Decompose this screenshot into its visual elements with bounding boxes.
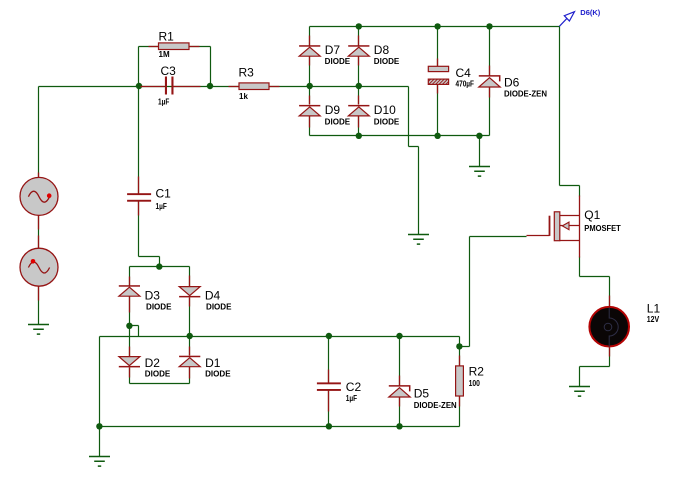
svg-text:DIODE: DIODE [374,57,400,66]
svg-text:D10: D10 [374,103,396,117]
svg-text:R1: R1 [159,30,175,44]
svg-text:DIODE-ZEN: DIODE-ZEN [414,401,457,410]
svg-text:1µF: 1µF [156,202,167,211]
svg-text:100: 100 [469,379,481,388]
svg-text:C2: C2 [346,380,362,394]
svg-text:DIODE: DIODE [146,303,172,312]
svg-text:D7: D7 [325,43,341,57]
svg-text:DIODE-ZEN: DIODE-ZEN [504,90,547,99]
svg-text:Q1: Q1 [584,208,600,222]
svg-text:1M: 1M [159,50,170,59]
svg-text:D6(K): D6(K) [580,8,601,17]
svg-text:D4: D4 [205,289,221,303]
svg-text:L1: L1 [647,302,661,316]
svg-text:D1: D1 [205,356,221,370]
svg-text:1µF: 1µF [158,98,169,107]
svg-text:DIODE: DIODE [325,117,351,126]
svg-text:C1: C1 [156,187,172,201]
svg-text:D2: D2 [145,356,161,370]
svg-text:D8: D8 [374,43,390,57]
svg-text:DIODE: DIODE [206,303,232,312]
svg-text:1µF: 1µF [346,394,357,403]
svg-text:DIODE: DIODE [145,370,171,379]
svg-text:C4: C4 [456,66,472,80]
svg-text:DIODE: DIODE [205,370,231,379]
svg-text:D5: D5 [414,386,430,400]
svg-text:470µF: 470µF [456,80,475,89]
svg-text:DIODE: DIODE [374,117,400,126]
svg-text:1k: 1k [239,92,248,101]
svg-text:C3: C3 [161,64,177,78]
svg-text:PMOSFET: PMOSFET [584,224,621,233]
svg-text:D6: D6 [504,76,520,90]
svg-text:DIODE: DIODE [325,57,351,66]
svg-text:D3: D3 [145,289,161,303]
svg-text:D9: D9 [325,103,341,117]
svg-text:12V: 12V [647,315,660,324]
svg-text:R2: R2 [469,365,485,379]
svg-text:R3: R3 [239,66,255,80]
